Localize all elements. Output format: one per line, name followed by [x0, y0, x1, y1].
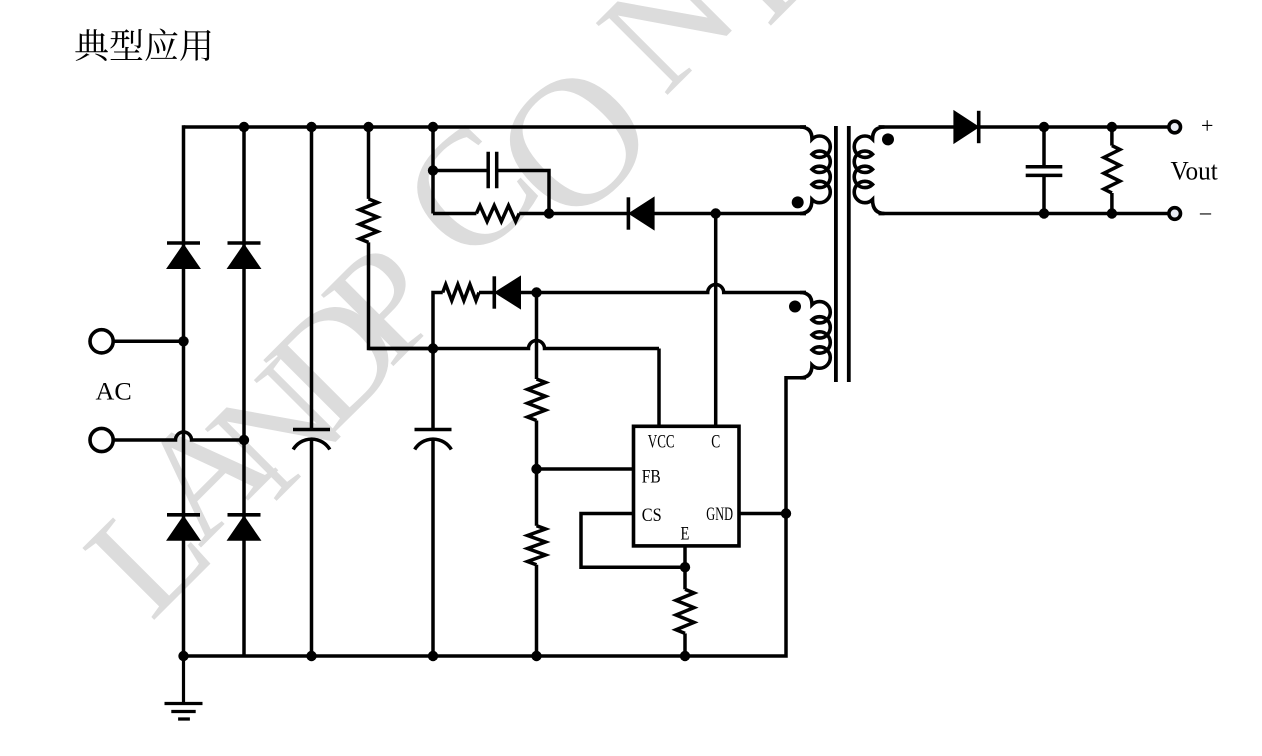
junction top bus / R1 — [363, 122, 373, 132]
junction primary bottom / C pin — [711, 208, 721, 218]
wire AC line to bridge — [114, 340, 184, 344]
svg-text:AC: AC — [96, 379, 132, 406]
junction output cap bottom — [1039, 208, 1049, 218]
resistor aux supply — [443, 285, 479, 301]
resistor current sense — [676, 589, 694, 633]
wire C2 lower lead — [431, 440, 435, 657]
junction aux node / divider — [531, 287, 541, 297]
junction VCC node / C2 — [428, 343, 438, 353]
junction bottom bus / sense resistor — [680, 651, 690, 661]
capacitor output filter — [1026, 167, 1063, 176]
wire AC neutral to bridge with hop — [114, 432, 245, 440]
diode output rectifier — [954, 111, 979, 143]
wire output res lower lead — [1110, 193, 1114, 214]
wire bottom ground bus — [184, 514, 787, 657]
wire snubber res right lead — [519, 212, 549, 216]
transformer auxiliary winding — [800, 293, 830, 378]
wire divider lower lead — [535, 565, 539, 656]
junction snubber cap tap — [428, 165, 438, 175]
junction bottom bus / divider — [531, 651, 541, 661]
wire right ground leg to aux winding — [786, 378, 806, 514]
diode D1 bridge upper-left — [167, 241, 200, 245]
wire left bridge leg — [182, 125, 186, 656]
junction top bus / C1 — [306, 122, 316, 132]
capacitor C2 VCC — [415, 430, 452, 450]
svg-text:+: + — [1201, 113, 1213, 138]
junction snubber output — [544, 208, 554, 218]
wire CS jog — [581, 514, 685, 568]
transformer primary winding — [800, 127, 830, 214]
wire snubber res left lead — [433, 212, 476, 216]
wire top HV bus — [184, 125, 807, 129]
wire R1 upper lead — [367, 127, 371, 199]
transformer core — [836, 126, 849, 382]
svg-text:–: – — [1199, 199, 1212, 224]
wire right bridge leg — [242, 127, 246, 656]
wire VCC pin leg — [657, 349, 661, 427]
wire C1 leg — [310, 127, 314, 430]
resistor divider lower — [528, 526, 546, 565]
capacitor snubber — [488, 152, 497, 188]
ground earth symbol — [165, 656, 203, 719]
transformer secondary winding — [854, 127, 884, 214]
svg-text:VCC: VCC — [648, 432, 675, 453]
title 典型应用 — [75, 29, 210, 61]
resistor output load — [1104, 146, 1120, 193]
svg-text:C: C — [711, 432, 720, 453]
wire clamp diode to primary — [654, 212, 806, 216]
svg-text:Vout: Vout — [1171, 157, 1219, 186]
wire E to sense resistor — [683, 567, 687, 589]
op-amp U1 controller box — [634, 426, 740, 546]
junction CS / E — [680, 562, 690, 572]
node auxiliary phase dot — [789, 301, 801, 313]
junction output res bottom — [1107, 208, 1117, 218]
junction bottom bus / C1 — [306, 651, 316, 661]
junction output cap top — [1039, 122, 1049, 132]
svg-text:FB: FB — [642, 467, 661, 488]
wire GND pin to ground leg — [739, 512, 786, 516]
resistor divider upper — [528, 379, 546, 421]
svg-text:E: E — [681, 524, 690, 545]
diode clamp — [627, 197, 631, 229]
wire snubber cap right lead — [497, 171, 549, 214]
wire output res upper lead — [1110, 127, 1114, 146]
diode D2 bridge upper-right — [228, 241, 261, 245]
wire divider middle — [535, 421, 539, 526]
diode aux rectifier — [492, 276, 496, 308]
junction top bus / right leg — [239, 122, 249, 132]
wire secondary top lead — [879, 125, 954, 129]
node primary phase dot — [792, 196, 804, 208]
wire FB tap to IC — [537, 467, 634, 471]
wire C2 upper lead — [431, 349, 435, 430]
wire snubber left leg — [431, 127, 435, 214]
junction top bus / snubber — [428, 122, 438, 132]
terminal AC line input — [90, 330, 113, 353]
wire C1 lower lead — [310, 440, 314, 657]
terminal Vout minus — [1169, 208, 1181, 220]
junction FB tap — [531, 464, 541, 474]
terminal AC neutral input — [90, 428, 113, 451]
wire aux res to diode — [479, 291, 494, 295]
wire VCC row with hop — [369, 341, 660, 349]
wire output cap upper lead — [1042, 127, 1046, 167]
resistor R1 startup — [360, 199, 378, 243]
wire sense resistor to ground bus — [683, 633, 687, 656]
junction output res top — [1107, 122, 1117, 132]
junction GND / right leg — [781, 508, 791, 518]
capacitor C1 bulk — [293, 430, 330, 450]
diode D3 bridge lower-left — [167, 513, 200, 517]
wire snubber cap lead — [433, 169, 488, 173]
junction AC line / left leg — [178, 336, 188, 346]
wire aux diode to winding with hop — [521, 285, 807, 293]
wire E pin lead — [683, 546, 687, 567]
svg-text:GND: GND — [706, 504, 733, 525]
wire output cap lower lead — [1042, 175, 1046, 213]
wire secondary bottom lead — [879, 212, 1168, 216]
svg-text:CS: CS — [642, 505, 662, 526]
wire divider upper lead — [535, 293, 539, 380]
junction bottom bus / C2 — [428, 651, 438, 661]
terminal Vout plus — [1169, 121, 1181, 133]
wire snubber to clamp diode — [549, 212, 628, 216]
wire output top — [979, 125, 1168, 129]
resistor snubber — [476, 206, 519, 222]
wire C pin leg — [714, 214, 718, 427]
diode D4 bridge lower-right — [228, 513, 261, 517]
junction AC neutral / right leg — [239, 435, 249, 445]
wire R1 to VCC node — [369, 242, 434, 348]
junction bottom bus / earth — [178, 651, 188, 661]
node secondary phase dot — [882, 133, 894, 145]
wire aux row corner leg — [433, 293, 443, 349]
